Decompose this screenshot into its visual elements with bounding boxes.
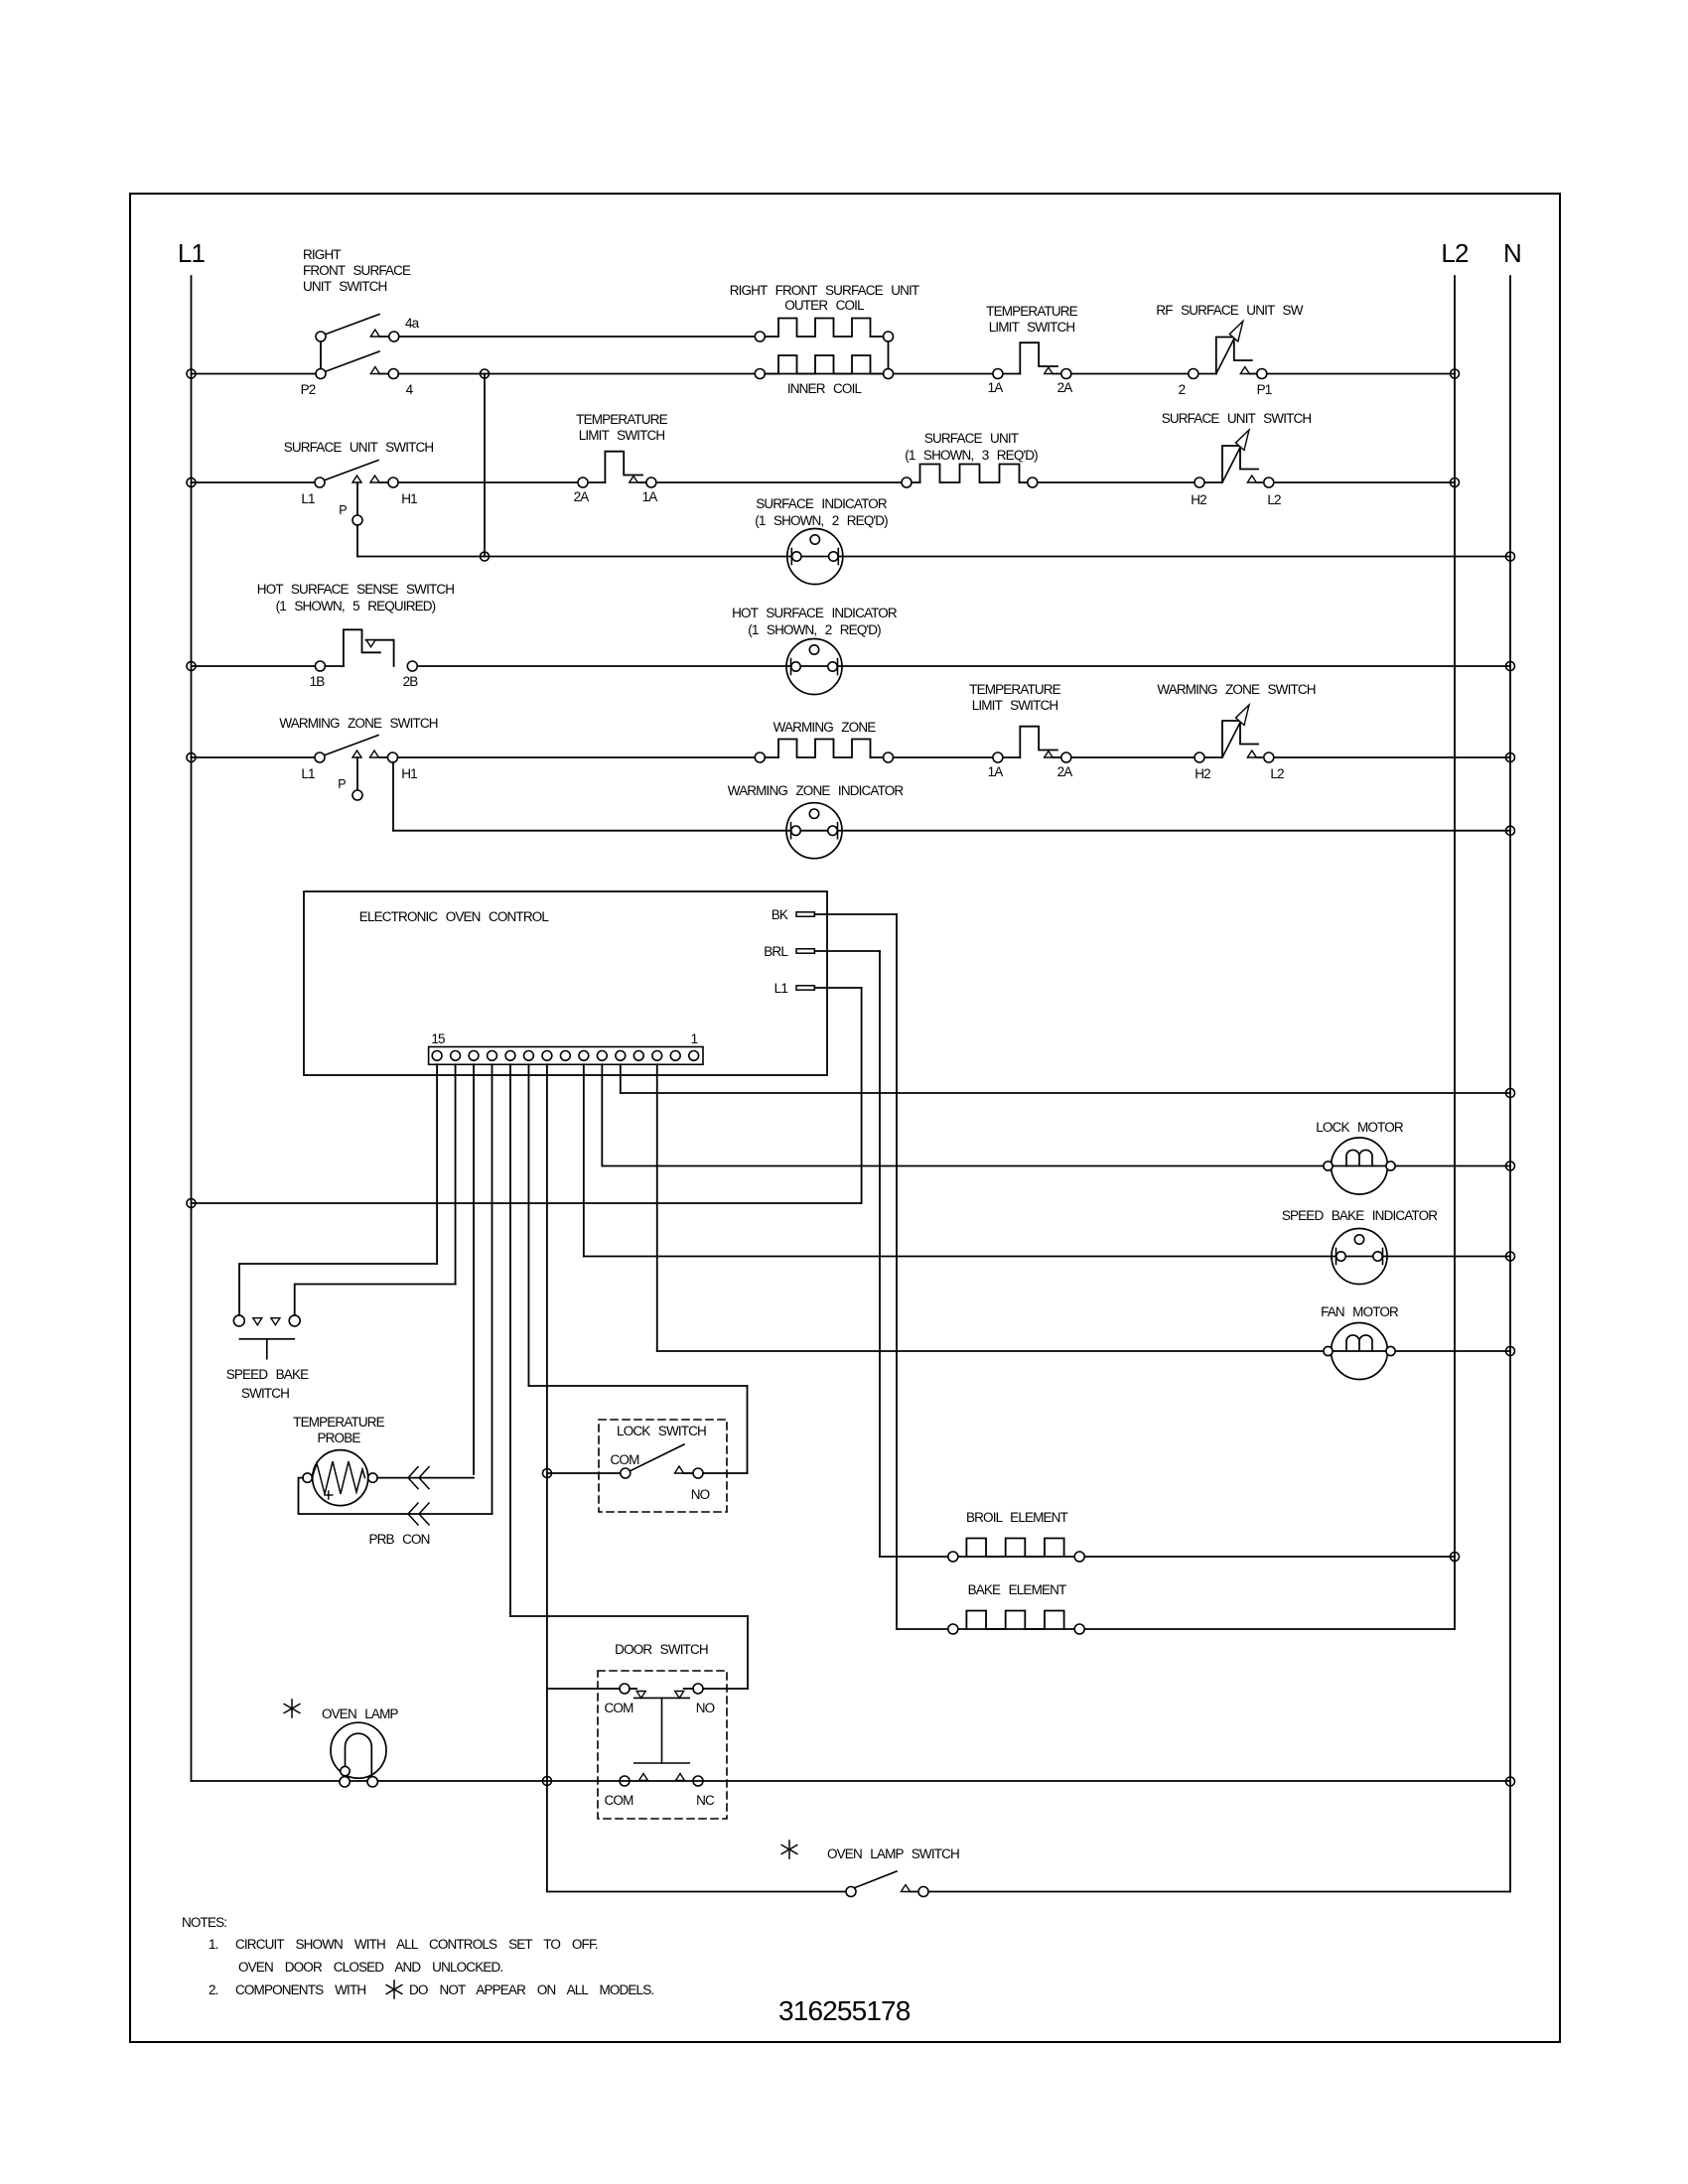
svg-text:BROIL ELEMENT: BROIL ELEMENT: [966, 1510, 1068, 1525]
svg-text:SURFACE UNIT SWITCH: SURFACE UNIT SWITCH: [1162, 411, 1312, 426]
svg-text:L1: L1: [178, 238, 206, 268]
svg-text:WARMING ZONE SWITCH: WARMING ZONE SWITCH: [1157, 682, 1315, 697]
svg-text:FAN MOTOR: FAN MOTOR: [1321, 1304, 1399, 1319]
svg-text:HOT SURFACE SENSE SWITCH: HOT SURFACE SENSE SWITCH: [257, 582, 454, 597]
svg-text:H1: H1: [401, 491, 417, 506]
svg-text:WARMING ZONE: WARMING ZONE: [774, 720, 877, 735]
svg-text:P: P: [339, 503, 347, 517]
svg-text:COM: COM: [605, 1701, 634, 1715]
svg-text:(1 SHOWN, 3 REQ'D): (1 SHOWN, 3 REQ'D): [905, 448, 1038, 463]
svg-text:LOCK MOTOR: LOCK MOTOR: [1316, 1120, 1404, 1135]
svg-text:(1 SHOWN, 2 REQ'D): (1 SHOWN, 2 REQ'D): [755, 513, 888, 528]
svg-text:RF SURFACE UNIT SW: RF SURFACE UNIT SW: [1156, 303, 1303, 318]
svg-text:LIMIT SWITCH: LIMIT SWITCH: [989, 320, 1075, 335]
svg-text:OVEN LAMP SWITCH: OVEN LAMP SWITCH: [827, 1846, 959, 1861]
svg-text:DOOR SWITCH: DOOR SWITCH: [615, 1642, 708, 1657]
svg-text:(1 SHOWN, 2 REQ'D): (1 SHOWN, 2 REQ'D): [748, 622, 881, 637]
svg-text:SPEED BAKE INDICATOR: SPEED BAKE INDICATOR: [1282, 1208, 1438, 1223]
svg-text:SPEED BAKE: SPEED BAKE: [226, 1367, 309, 1382]
svg-text:PROBE: PROBE: [317, 1431, 360, 1445]
svg-text:P2: P2: [301, 382, 316, 397]
svg-text:LIMIT SWITCH: LIMIT SWITCH: [972, 698, 1058, 713]
svg-text:L2: L2: [1270, 766, 1284, 781]
svg-text:2A: 2A: [1057, 764, 1073, 779]
svg-text:1: 1: [691, 1031, 698, 1046]
svg-text:4a: 4a: [405, 316, 420, 331]
svg-text:TEMPERATURE: TEMPERATURE: [576, 412, 668, 427]
svg-text:FRONT SURFACE: FRONT SURFACE: [303, 263, 411, 278]
svg-text:1.: 1.: [209, 1937, 218, 1952]
svg-text:P1: P1: [1257, 382, 1272, 397]
svg-text:CIRCUIT SHOWN WITH ALL CONTROL: CIRCUIT SHOWN WITH ALL CONTROLS SET TO O…: [235, 1937, 598, 1952]
svg-text:COM: COM: [605, 1793, 634, 1808]
svg-text:NOTES:: NOTES:: [182, 1915, 226, 1930]
svg-text:TEMPERATURE: TEMPERATURE: [293, 1415, 385, 1430]
svg-text:(1 SHOWN, 5 REQUIRED): (1 SHOWN, 5 REQUIRED): [276, 599, 436, 614]
svg-text:15: 15: [431, 1031, 445, 1046]
svg-text:BRL: BRL: [764, 944, 788, 959]
svg-text:L1: L1: [301, 766, 315, 781]
svg-text:1A: 1A: [988, 764, 1004, 779]
svg-text:P: P: [338, 777, 346, 791]
svg-text:DO NOT APPEAR ON ALL MODELS.: DO NOT APPEAR ON ALL MODELS.: [409, 1982, 653, 1997]
svg-text:OVEN LAMP: OVEN LAMP: [322, 1706, 398, 1721]
svg-text:SURFACE UNIT SWITCH: SURFACE UNIT SWITCH: [284, 440, 434, 455]
svg-text:L1: L1: [774, 981, 788, 996]
svg-text:SURFACE INDICATOR: SURFACE INDICATOR: [756, 496, 888, 511]
svg-text:RIGHT: RIGHT: [303, 247, 341, 262]
svg-text:OUTER COIL: OUTER COIL: [784, 298, 865, 313]
svg-text:NC: NC: [696, 1793, 715, 1808]
svg-text:HOT SURFACE INDICATOR: HOT SURFACE INDICATOR: [732, 606, 898, 620]
svg-text:WARMING ZONE INDICATOR: WARMING ZONE INDICATOR: [728, 783, 905, 798]
svg-text:NO: NO: [696, 1701, 715, 1715]
svg-text:2B: 2B: [403, 674, 419, 689]
svg-text:BAKE ELEMENT: BAKE ELEMENT: [968, 1582, 1066, 1597]
svg-text:L2: L2: [1267, 492, 1281, 507]
svg-text:1B: 1B: [310, 674, 326, 689]
svg-text:H2: H2: [1191, 492, 1206, 507]
svg-text:2.: 2.: [209, 1982, 218, 1997]
svg-text:4: 4: [406, 382, 414, 397]
svg-text:1A: 1A: [988, 380, 1004, 395]
svg-text:INNER COIL: INNER COIL: [787, 381, 863, 396]
svg-text:LOCK SWITCH: LOCK SWITCH: [617, 1424, 706, 1438]
svg-text:2: 2: [1179, 382, 1186, 397]
svg-text:H1: H1: [401, 766, 417, 781]
svg-text:L1: L1: [301, 491, 315, 506]
svg-text:N: N: [1503, 238, 1521, 268]
svg-text:316255178: 316255178: [778, 1995, 911, 2026]
svg-text:RIGHT FRONT SURFACE UNIT: RIGHT FRONT SURFACE UNIT: [730, 283, 919, 298]
svg-text:H2: H2: [1195, 766, 1210, 781]
svg-text:PRB CON: PRB CON: [368, 1532, 429, 1547]
svg-text:2A: 2A: [1057, 380, 1073, 395]
svg-text:SWITCH: SWITCH: [241, 1386, 289, 1401]
svg-text:COMPONENTS WITH: COMPONENTS WITH: [235, 1982, 365, 1997]
svg-text:L2: L2: [1441, 238, 1469, 268]
svg-text:SURFACE UNIT: SURFACE UNIT: [924, 431, 1019, 446]
svg-text:OVEN DOOR CLOSED AND UNLOCKED.: OVEN DOOR CLOSED AND UNLOCKED.: [238, 1960, 502, 1975]
svg-text:1A: 1A: [642, 489, 658, 504]
svg-text:TEMPERATURE: TEMPERATURE: [969, 682, 1061, 697]
svg-text:2A: 2A: [574, 489, 590, 504]
svg-text:NO: NO: [691, 1487, 710, 1502]
svg-text:LIMIT SWITCH: LIMIT SWITCH: [579, 428, 665, 443]
svg-text:WARMING ZONE SWITCH: WARMING ZONE SWITCH: [279, 716, 437, 731]
svg-text:BK: BK: [772, 907, 788, 922]
svg-text:TEMPERATURE: TEMPERATURE: [986, 304, 1078, 319]
svg-text:ELECTRONIC OVEN CONTROL: ELECTRONIC OVEN CONTROL: [359, 909, 550, 924]
svg-text:COM: COM: [611, 1452, 640, 1467]
svg-text:UNIT SWITCH: UNIT SWITCH: [303, 279, 386, 294]
